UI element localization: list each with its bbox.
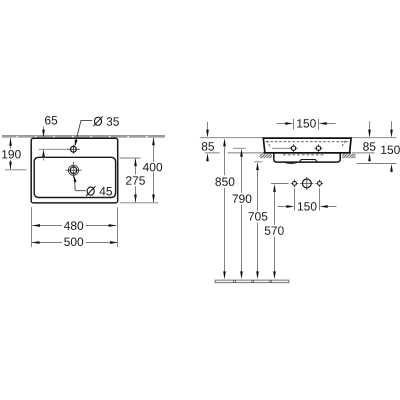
dimension 570 arrows <box>273 184 276 280</box>
floor line <box>215 280 289 283</box>
dimension 705 arrows <box>256 162 259 279</box>
fixing hole left crosshair <box>289 144 297 152</box>
dimension 275 extension line <box>120 157 141 159</box>
label 150top <box>297 119 316 128</box>
leader arrow Ø45 <box>74 175 77 182</box>
dimension 150 top arrows <box>285 122 326 125</box>
label 850 <box>215 177 234 186</box>
dimension 850 line <box>224 144 226 274</box>
label 85R <box>363 142 375 151</box>
dimension 150 right lines <box>391 121 393 172</box>
label 190 <box>2 150 21 159</box>
dimension 190 arrows <box>9 138 12 170</box>
label 400 <box>143 163 162 172</box>
drain fitting small hole left <box>293 181 297 185</box>
tap hole Ø35 (plan) <box>71 146 77 152</box>
underside siphon bulge <box>284 162 299 164</box>
dimension 190 extension line <box>5 169 27 171</box>
dimension 705 line <box>257 168 259 274</box>
label 480 <box>64 221 83 230</box>
label 705 <box>249 212 268 221</box>
rim hidden edge (dashed) <box>266 141 349 143</box>
lowest point extension line <box>357 163 397 165</box>
extension lines below basin <box>32 207 118 247</box>
rim bottom edge <box>263 152 351 154</box>
drain fitting small hole right crosshair <box>316 180 324 188</box>
underside recess <box>299 160 318 163</box>
basin outer rim (plan) <box>31 138 118 203</box>
leader line Ø35 <box>76 120 92 140</box>
label Ø45 diameter symbol <box>87 187 94 195</box>
floor joint ticks <box>234 280 272 283</box>
dimension 790 line <box>241 154 243 273</box>
dimension 150 mid extension lines <box>295 188 320 210</box>
basin inner bowl (plan) <box>34 157 115 197</box>
label Ø35digits <box>107 117 119 126</box>
dimension 400 extension line <box>120 202 159 204</box>
dimension 480 arrows <box>32 224 117 227</box>
fixing hole right <box>316 146 320 150</box>
dimension 150 mid arrows <box>286 205 327 208</box>
wall line (plan) <box>2 136 165 138</box>
dimension 500 line <box>32 242 118 244</box>
dimension 85 left arrows <box>206 130 209 162</box>
wall line top edge <box>2 135 165 137</box>
rim bottom extension line right <box>352 152 375 154</box>
dimension 150 mid line <box>278 206 337 208</box>
dimension 85 left lines <box>207 122 209 162</box>
label 500 <box>64 238 83 247</box>
wall bracket hatch left <box>260 154 272 158</box>
top edge extension line right <box>351 137 396 139</box>
hole centerline segments <box>233 147 291 149</box>
drain outlet circle <box>302 179 311 188</box>
dimension 400 line <box>153 138 155 202</box>
fixing hole left <box>291 146 295 150</box>
tap hole centerline <box>39 148 67 150</box>
dimension 570 line <box>274 190 276 274</box>
drain fitting small hole left crosshair <box>291 180 299 188</box>
hidden diagonal left <box>267 141 271 148</box>
leader arrow Ø35 <box>75 140 78 148</box>
top edge extension line left <box>200 137 264 139</box>
label 85L <box>202 142 214 151</box>
leader line Ø45 <box>75 182 86 191</box>
drain inner circle Ø45 <box>70 167 77 174</box>
label Ø35 diameter symbol <box>94 117 101 125</box>
wall bracket hatch right <box>342 154 356 158</box>
dimension 500 arrows <box>32 241 119 244</box>
dimension 275 arrows <box>134 158 137 202</box>
dimension 150 right arrows <box>390 130 393 172</box>
rim bottom extension line left <box>205 152 263 154</box>
label 150mid <box>298 202 317 211</box>
drain outlet crosshair <box>300 177 313 190</box>
fixing hole right crosshair <box>314 144 322 152</box>
tap hole crosshair <box>67 145 80 154</box>
dimension 150 top extension lines <box>294 119 319 130</box>
drain outer circle <box>68 165 78 175</box>
dimension 480 line <box>32 225 116 227</box>
basin rim body (side) <box>263 138 351 153</box>
dimension 790 arrows <box>240 149 243 280</box>
label 275 <box>126 176 145 185</box>
label 150R <box>381 146 400 155</box>
label 570 <box>265 226 284 235</box>
dimension 65 arrows <box>42 130 45 157</box>
underside hidden line (dashed) <box>283 154 325 156</box>
dimension 850 arrows <box>223 138 226 279</box>
drain fitting small hole right <box>318 181 322 185</box>
dimension 85 right arrows <box>368 130 371 162</box>
dimension 190 line <box>10 138 12 169</box>
dimension 400 arrows <box>152 137 155 202</box>
dimension 65 lines <box>43 127 45 161</box>
dimension 705 extension line <box>254 161 262 163</box>
drain crosshair <box>66 162 82 178</box>
dimension 85 right lines <box>369 121 371 161</box>
dimension 150 top line <box>277 123 336 125</box>
label 65 <box>45 116 57 125</box>
basin underside outline <box>274 153 340 162</box>
wall joint gaps <box>17 136 147 138</box>
dimension 275 line <box>135 158 137 202</box>
label 790 <box>233 194 252 203</box>
label Ø45digits <box>99 187 112 195</box>
dimension 570 extension line <box>271 183 289 185</box>
hidden diagonal right <box>342 141 346 147</box>
